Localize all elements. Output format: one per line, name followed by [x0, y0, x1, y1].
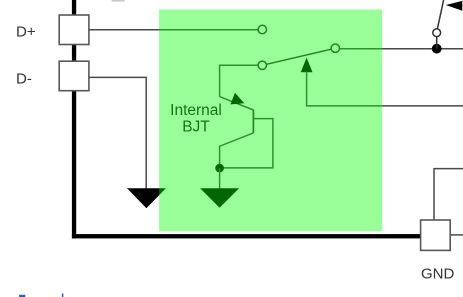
pad D- — [59, 61, 89, 90]
svg-text:GND: GND — [421, 265, 455, 282]
transistor base bar — [252, 110, 254, 133]
wire Vbus thick vertical rail — [72, 0, 76, 238]
wire D+ to switch — [89, 29, 258, 31]
wire switch pole to BJT collector — [220, 65, 259, 96]
ground arrow (black) on D- — [127, 188, 166, 208]
wire stem to ground arrow — [219, 168, 221, 188]
switch contact circle output — [331, 44, 339, 52]
green highlight overlay — [159, 9, 382, 231]
node junction dot on output wire — [432, 44, 442, 54]
wire GND thick horizontal rail — [72, 234, 421, 238]
control arrowhead (top right, pointing left) — [446, 1, 463, 11]
wire from GND pad to right — [450, 234, 463, 236]
wire switch output to right — [340, 48, 463, 50]
wire D- down to termination — [89, 77, 146, 188]
wire BJT right loop — [220, 119, 273, 168]
switch contact circle D+ (open) — [258, 25, 266, 33]
wire BJT collector diagonal — [220, 97, 254, 110]
switch arm (top right, cut off) — [437, 0, 443, 29]
wire BJT emitter — [220, 133, 254, 168]
pad GND — [421, 220, 451, 250]
control arrow pointing at switch arm — [301, 58, 313, 73]
switch arm — [266, 49, 331, 64]
svg-text:D-: D- — [16, 71, 32, 88]
cropped figure fragment (light gray) at top — [112, 0, 125, 2]
switch contact circle pole — [258, 61, 266, 69]
wire from GND pad up and right — [434, 169, 463, 220]
caption fragment (blue, cut off) — [19, 295, 25, 297]
ground arrow (inside highlight) — [200, 188, 239, 208]
switch contact circle (top right, open) — [433, 29, 441, 37]
transistor arrow (internal BJT) — [230, 93, 244, 105]
pad D+ — [59, 15, 89, 45]
svg-text:D+: D+ — [16, 24, 36, 41]
wire control arrow stem — [307, 72, 463, 106]
node junction dot BJT emitter — [215, 164, 224, 173]
wire junction up to second switch — [436, 37, 438, 49]
